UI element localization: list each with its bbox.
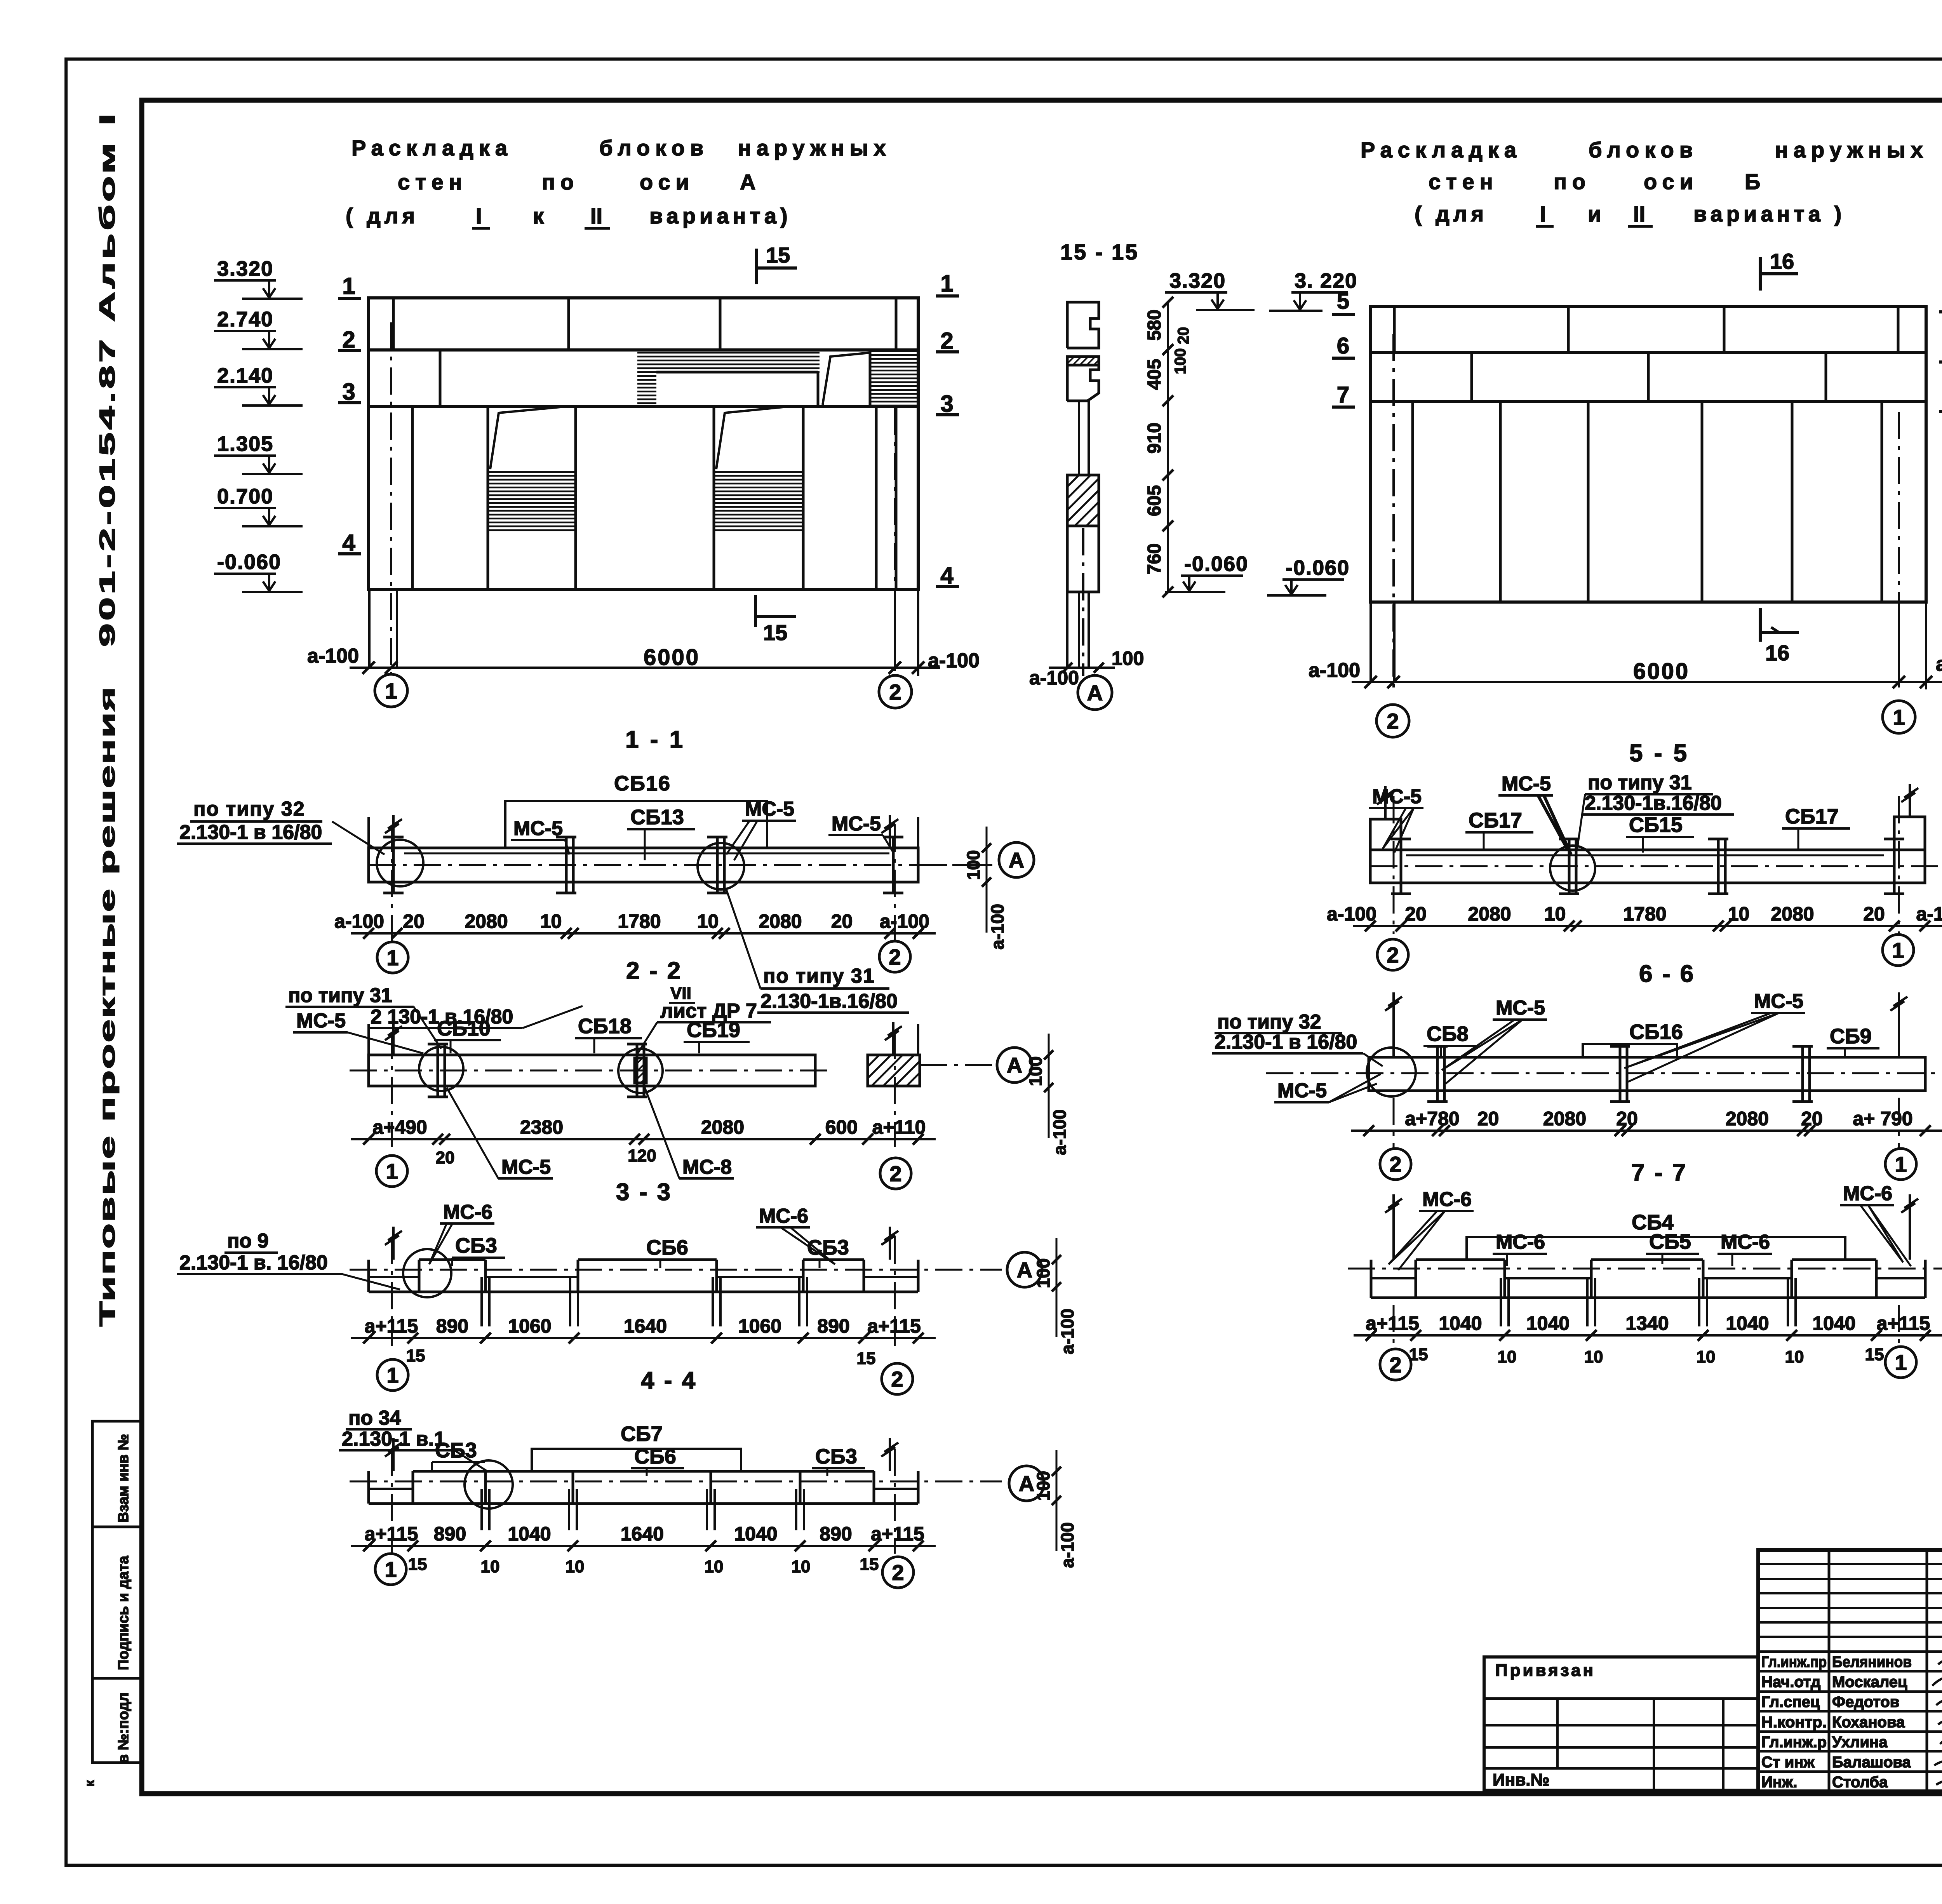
svg-text:2080: 2080 (701, 1116, 744, 1138)
svg-text:890: 890 (817, 1315, 849, 1337)
strip8 centerline (1348, 1268, 1942, 1270)
svg-text:2.130-1 в.1: 2.130-1 в.1 (342, 1428, 445, 1450)
svg-text:1040: 1040 (508, 1523, 551, 1545)
svg-text:2 - 2: 2 - 2 (626, 957, 682, 984)
svg-text:10: 10 (1785, 1347, 1804, 1366)
3-3 right 100 dims (1048, 1034, 1050, 1138)
svg-text:Ст инж: Ст инж (1761, 1754, 1815, 1771)
svg-text:-0.060: -0.060 (1184, 552, 1248, 576)
svg-text:20: 20 (403, 910, 425, 932)
svg-text:10: 10 (792, 1557, 811, 1576)
2-2 joint at axis 1 (392, 837, 395, 893)
svg-text:Столба: Столба (1832, 1774, 1888, 1791)
strip8 end breaks (1392, 1194, 1395, 1227)
svg-text:3 - 3: 3 - 3 (616, 1179, 672, 1206)
svg-text:2080: 2080 (1543, 1108, 1586, 1130)
svg-text:МС-5: МС-5 (1277, 1079, 1327, 1102)
svg-text:а+115: а+115 (871, 1523, 924, 1545)
svg-text:СБ3: СБ3 (815, 1445, 857, 1468)
svg-text:5: 5 (1337, 289, 1349, 314)
6-6 right end block (1894, 817, 1925, 883)
svg-text:1040: 1040 (1439, 1312, 1482, 1334)
svg-text:СБ15: СБ15 (1629, 813, 1683, 837)
15-15 below-grade stem (1078, 592, 1080, 668)
svg-text:МС-6: МС-6 (443, 1201, 492, 1224)
strip8 grid circle 2 (1380, 1349, 1411, 1380)
7-7 grid circle 2 (1380, 1149, 1411, 1180)
svg-text:( для: ( для (1415, 202, 1488, 226)
svg-text:6000: 6000 (644, 645, 700, 670)
6-6 joints (1400, 839, 1403, 894)
3-3 joint circle 2 (618, 1049, 663, 1093)
svg-text:0.700: 0.700 (217, 485, 273, 508)
svg-text:СБ5: СБ5 (1649, 1230, 1691, 1253)
svg-text:1 - 1: 1 - 1 (625, 726, 685, 753)
svg-text:20: 20 (1616, 1108, 1638, 1130)
svg-text:по 34: по 34 (348, 1407, 401, 1429)
1-1 row2 joint (439, 350, 442, 406)
svg-text:наружных: наружных (1775, 137, 1928, 162)
svg-text:варианта ): варианта ) (1693, 202, 1845, 226)
svg-text:а-100: а-100 (880, 910, 929, 932)
svg-text:20: 20 (1863, 903, 1885, 925)
svg-text:890: 890 (434, 1523, 466, 1545)
15-15 second block (1067, 357, 1099, 401)
svg-text:А: А (1017, 1258, 1032, 1282)
svg-text:СБ17: СБ17 (1469, 809, 1522, 832)
svg-text:2080: 2080 (1771, 903, 1814, 925)
2-2 axis A circle (918, 864, 994, 866)
svg-text:СБ9: СБ9 (1830, 1025, 1872, 1048)
plan section 4-4 strip (369, 1291, 918, 1293)
svg-text:1040: 1040 (734, 1523, 777, 1545)
svg-text:10: 10 (697, 910, 719, 932)
1-1 left window sash diagonal (490, 406, 569, 469)
svg-text:10: 10 (705, 1557, 724, 1576)
svg-text:МС-5: МС-5 (1754, 990, 1803, 1013)
5-5 grid circle 1 (1883, 701, 1915, 733)
svg-text:СБ13: СБ13 (630, 806, 684, 829)
svg-text:580: 580 (1144, 310, 1165, 341)
svg-text:МС-5: МС-5 (1372, 785, 1422, 808)
svg-text:15: 15 (763, 620, 787, 645)
svg-text:7: 7 (1337, 382, 1349, 407)
svg-text:2.130-1в.16/80: 2.130-1в.16/80 (760, 990, 898, 1013)
svg-text:а+490: а+490 (372, 1116, 427, 1138)
6-6 dimension row (1353, 925, 1942, 927)
svg-text:наружных: наружных (738, 136, 891, 160)
svg-text:1: 1 (940, 270, 953, 296)
3-3 grid circle 2 (880, 1158, 911, 1189)
svg-text:по типу 31: по типу 31 (288, 984, 392, 1007)
svg-text:4: 4 (940, 562, 954, 588)
svg-text:2: 2 (1389, 1152, 1401, 1177)
svg-text:А: А (1007, 1053, 1022, 1077)
svg-text:16: 16 (1765, 640, 1789, 665)
svg-text:СБ6: СБ6 (634, 1445, 676, 1468)
svg-text:2: 2 (891, 1367, 903, 1391)
svg-text:а+115: а+115 (867, 1315, 921, 1337)
plan section 3-3 wall (369, 1055, 815, 1086)
svg-text:а-100: а-100 (334, 910, 384, 932)
svg-text:10: 10 (481, 1557, 500, 1576)
15-15 grid circle A (1078, 675, 1112, 710)
svg-text:Н.контр.: Н.контр. (1761, 1714, 1827, 1731)
1-1 cut mark 15 top (755, 249, 758, 284)
svg-text:МС-6: МС-6 (1721, 1231, 1770, 1253)
svg-text:6000: 6000 (1633, 659, 1690, 684)
svg-text:6: 6 (1337, 333, 1349, 359)
svg-text:МС-5: МС-5 (1496, 997, 1545, 1019)
svg-text:а+115: а+115 (365, 1315, 418, 1337)
7-7 dimension row (1351, 1130, 1942, 1132)
svg-text:СБ18: СБ18 (578, 1015, 632, 1038)
svg-text:Коханова: Коханова (1832, 1714, 1905, 1731)
3-3 end break (392, 1022, 395, 1055)
svg-text:СБ3: СБ3 (455, 1234, 497, 1257)
svg-text:3.320: 3.320 (1169, 269, 1226, 292)
6-6 left end block (1370, 819, 1401, 883)
svg-text:100: 100 (1172, 348, 1189, 374)
svg-text:а-100: а-100 (1327, 903, 1376, 925)
svg-text:100: 100 (963, 850, 983, 880)
svg-text:405: 405 (1144, 359, 1165, 390)
svg-text:2: 2 (1387, 943, 1399, 967)
svg-text:МС-5: МС-5 (501, 1156, 551, 1178)
svg-text:по типу 32: по типу 32 (193, 798, 305, 820)
svg-text:по типу 31: по типу 31 (1588, 771, 1692, 794)
svg-text:СБ19: СБ19 (687, 1018, 740, 1042)
svg-text:910: 910 (1144, 423, 1165, 454)
svg-text:а-100: а-100 (987, 904, 1008, 950)
svg-text:к: к (533, 204, 544, 228)
svg-text:4: 4 (342, 530, 355, 556)
svg-text:20: 20 (436, 1148, 455, 1167)
6-6 centerline (1370, 865, 1942, 867)
svg-text:стен: стен (1429, 169, 1498, 194)
svg-text:3.320: 3.320 (217, 257, 273, 280)
svg-text:1: 1 (386, 1159, 398, 1183)
svg-text:МС-6: МС-6 (1843, 1182, 1892, 1205)
title block outer (1758, 1550, 1942, 1791)
svg-text:по типу 32: по типу 32 (1217, 1011, 1321, 1033)
svg-text:15: 15 (860, 1555, 879, 1574)
svg-text:100: 100 (1025, 1056, 1046, 1086)
svg-text:20: 20 (831, 910, 853, 932)
svg-text:10: 10 (1544, 903, 1566, 925)
svg-text:Ухлина: Ухлина (1832, 1733, 1888, 1751)
svg-text:2080: 2080 (1726, 1108, 1769, 1130)
5-5 axis 1 dash-dot (1898, 412, 1900, 687)
svg-text:а-100: а-100 (1309, 659, 1360, 682)
svg-text:СБ10: СБ10 (437, 1017, 491, 1040)
5-5 lower joints (1411, 402, 1414, 602)
svg-text:а-100: а-100 (1057, 1522, 1077, 1568)
svg-text:а-100: а-100 (928, 649, 980, 672)
svg-text:оси: оси (640, 170, 694, 194)
strip4b end breaks (392, 1438, 395, 1471)
svg-text:6 - 6: 6 - 6 (1639, 961, 1695, 987)
15-15 bottom dims (1049, 667, 1115, 669)
svg-text:Раскладка: Раскладка (352, 136, 513, 160)
1-1 grid circle 2 (879, 675, 912, 708)
7-7 centerline (1266, 1072, 1942, 1074)
svg-text:2.130-1 в. 16/80: 2.130-1 в. 16/80 (179, 1251, 328, 1274)
strip8 axis stems (1393, 1305, 1395, 1350)
elevation 1-1 wall outline (369, 298, 918, 590)
2-2 joint circle mid (698, 843, 744, 889)
svg-text:СБ17: СБ17 (1785, 805, 1839, 828)
1-1 axis 2 dash-dot (894, 408, 896, 674)
svg-text:20: 20 (1405, 903, 1427, 925)
svg-text:Москалец: Москалец (1832, 1674, 1907, 1691)
svg-text:СБ3: СБ3 (435, 1439, 477, 1462)
svg-text:Типовые проектные решения: Типовые проектные решения (95, 686, 119, 1326)
svg-text:-0.060: -0.060 (217, 550, 281, 574)
svg-text:2: 2 (1389, 1352, 1401, 1377)
1-1 right window sill hatch (714, 472, 803, 530)
svg-text:20: 20 (1175, 327, 1192, 345)
svg-text:А: А (1019, 1471, 1034, 1496)
1-1 axis 1 dash-dot (390, 322, 392, 674)
5-5 cut mark 16 top (1759, 257, 1762, 291)
svg-text:1060: 1060 (738, 1315, 781, 1337)
svg-text:МС-8: МС-8 (682, 1156, 732, 1178)
strip4b grid circle 2 (882, 1557, 914, 1588)
svg-text:I: I (1540, 202, 1546, 226)
svg-text:Инв.№: Инв.№ (1493, 1770, 1550, 1789)
svg-text:блоков: блоков (599, 136, 709, 160)
strip4b dimension row (351, 1545, 936, 1547)
2-2 joint right (892, 837, 895, 893)
15-15 diagonal hatched block (1067, 475, 1099, 526)
svg-text:Гл.инж.пр: Гл.инж.пр (1761, 1653, 1827, 1671)
svg-text:1: 1 (1892, 938, 1904, 962)
2-2 joint 1856 (716, 837, 719, 893)
6-6 grid circle 2 (1377, 939, 1408, 970)
2-2 grid circle 1 (377, 942, 408, 973)
svg-text:Подпись и дата: Подпись и дата (115, 1556, 132, 1670)
5-5 axis 2 dash-dot (1392, 334, 1395, 687)
svg-text:МС-5: МС-5 (745, 798, 794, 820)
plan section 7-7 wall (1369, 1057, 1925, 1091)
svg-text:а+ 790: а+ 790 (1853, 1108, 1912, 1130)
2-2 joint circle left (377, 840, 423, 886)
svg-text:1: 1 (385, 679, 397, 703)
svg-text:по 9: по 9 (227, 1230, 269, 1252)
svg-text:100: 100 (1033, 1258, 1053, 1288)
svg-text:10: 10 (540, 910, 562, 932)
svg-text:по типу 31: по типу 31 (763, 965, 875, 987)
signature squiggles (1938, 1659, 1942, 1665)
svg-text:по: по (542, 170, 579, 194)
1-1 columns below wall (368, 590, 371, 668)
svg-text:2: 2 (889, 1161, 901, 1186)
strip4b axis A circle (1009, 1466, 1044, 1501)
strip8 dimension row (1354, 1334, 1942, 1337)
6-6 joint circle (1550, 846, 1595, 891)
1-1 row1 joints (392, 298, 395, 350)
svg-text:2080: 2080 (759, 910, 802, 932)
svg-text:а-100: а-100 (1936, 653, 1942, 675)
svg-text:10: 10 (1584, 1347, 1603, 1366)
svg-text:1780: 1780 (1623, 903, 1666, 925)
strip4b right 100 dims (1056, 1450, 1058, 1551)
3-3 end centerline to A (920, 1064, 994, 1066)
5-5 dimension line 6000 (1352, 681, 1942, 683)
15-15 top block (1067, 302, 1099, 348)
title block: signature rows (1758, 1670, 1942, 1673)
svg-text:890: 890 (820, 1523, 852, 1545)
title block: thin header rows (1758, 1563, 1942, 1565)
5-5 grid circle 2 (1376, 705, 1409, 737)
3-3 centerline (350, 1070, 827, 1072)
svg-text:760: 760 (1144, 543, 1165, 574)
svg-text:2: 2 (1387, 709, 1399, 733)
svg-text:1: 1 (1895, 1350, 1907, 1375)
svg-text:15: 15 (857, 1349, 876, 1368)
svg-text:МС-5: МС-5 (832, 813, 881, 835)
svg-text:А: А (740, 170, 761, 194)
svg-text:120: 120 (628, 1146, 656, 1165)
svg-text:СБ6: СБ6 (646, 1236, 688, 1259)
svg-text:1640: 1640 (621, 1523, 664, 1545)
svg-text:1: 1 (386, 945, 398, 970)
svg-text:МС-6: МС-6 (1496, 1231, 1545, 1253)
4-4 grid circle 1 (377, 1359, 408, 1391)
6-6 grid circle 1 (1883, 935, 1914, 966)
4-4 right 100 dims (1056, 1238, 1058, 1337)
4-4 grid circle 2 (882, 1363, 913, 1394)
plan bottom strip (по 34) (369, 1502, 918, 1505)
svg-text:МС-5: МС-5 (296, 1009, 346, 1032)
svg-text:II: II (1633, 202, 1645, 226)
svg-text:15: 15 (1865, 1345, 1884, 1364)
svg-text:Привязан: Привязан (1495, 1661, 1596, 1680)
svg-text:к: к (82, 1780, 97, 1787)
svg-text:10: 10 (1697, 1347, 1716, 1366)
3-3 joint b (636, 1044, 639, 1097)
svg-text:а+780: а+780 (1405, 1108, 1459, 1130)
15-15 lower block (1067, 526, 1099, 592)
svg-text:2380: 2380 (520, 1116, 563, 1138)
svg-text:а+115: а+115 (365, 1523, 418, 1545)
svg-text:1060: 1060 (508, 1315, 551, 1337)
svg-text:16: 16 (1770, 249, 1794, 273)
svg-text:А: А (1087, 680, 1103, 705)
5-5 columns below wall (1369, 602, 1372, 682)
4-4 end breaks (392, 1227, 395, 1260)
strip8 grid circle 1 (1885, 1347, 1916, 1378)
svg-text:а+110: а+110 (872, 1116, 926, 1138)
svg-text:2: 2 (342, 327, 355, 353)
svg-text:варианта): варианта) (649, 204, 792, 228)
7-7 grid circle 1 (1885, 1149, 1916, 1180)
svg-text:1640: 1640 (624, 1315, 667, 1337)
1-1 right window sash diagonal (716, 406, 791, 469)
15-15 vertical dim chain (1167, 302, 1169, 592)
svg-text:605: 605 (1144, 485, 1165, 516)
svg-text:оси: оси (1644, 169, 1698, 194)
svg-text:1040: 1040 (1726, 1312, 1769, 1334)
svg-text:15: 15 (766, 243, 790, 267)
svg-text:Гл.спец: Гл.спец (1761, 1693, 1820, 1711)
7-7 joint circle at axis 2 (1367, 1048, 1416, 1096)
svg-text:10: 10 (1498, 1347, 1517, 1366)
strip4b grid circle 1 (375, 1554, 406, 1585)
plan section 6-6 wall (1370, 850, 1925, 883)
svg-text:2: 2 (892, 1560, 904, 1585)
svg-text:Гл.инж.р: Гл.инж.р (1761, 1733, 1827, 1751)
1-1 dimension line 6000 (350, 667, 940, 669)
svg-text:2.130-1 в 16/80: 2.130-1 в 16/80 (1215, 1031, 1357, 1053)
svg-text:блоков: блоков (1589, 137, 1698, 162)
svg-text:МС-6: МС-6 (1422, 1188, 1472, 1211)
svg-text:стен: стен (398, 170, 468, 194)
left attachment table Привязан (1484, 1657, 1758, 1790)
svg-text:по: по (1554, 169, 1591, 194)
svg-text:5 - 5: 5 - 5 (1629, 740, 1689, 767)
svg-text:СБ16: СБ16 (1629, 1020, 1683, 1044)
svg-text:Инж.: Инж. (1761, 1774, 1797, 1791)
svg-text:-0.060: -0.060 (1286, 556, 1350, 580)
svg-text:100: 100 (1033, 1471, 1053, 1501)
svg-text:15: 15 (406, 1346, 425, 1365)
svg-text:2.130-1в.16/80: 2.130-1в.16/80 (1585, 792, 1722, 815)
2-2 centerline (369, 864, 999, 866)
svg-text:890: 890 (436, 1315, 468, 1337)
svg-text:а-100: а-100 (1057, 1309, 1077, 1354)
svg-text:в №:подл: в №:подл (115, 1692, 132, 1763)
6-6 axis stems (1393, 796, 1395, 934)
5-5 row6 joints (1470, 352, 1473, 402)
svg-text:2: 2 (889, 945, 901, 969)
svg-text:1340: 1340 (1625, 1312, 1669, 1334)
1-1 row2 right hatch block (870, 351, 918, 406)
1-1 left window sill hatch (488, 472, 576, 530)
7-7 joints (1436, 1046, 1439, 1102)
svg-text:2: 2 (940, 328, 953, 354)
svg-text:2.140: 2.140 (217, 364, 273, 387)
svg-text:1: 1 (1895, 1152, 1907, 1177)
3-3 dimension row (351, 1138, 936, 1140)
1-1 grid circle 1 (375, 674, 407, 707)
svg-text:1: 1 (1893, 705, 1905, 729)
svg-text:Белянинов: Белянинов (1832, 1653, 1912, 1671)
plan right bottom strip (1371, 1297, 1925, 1299)
2-2 dimension row (351, 932, 936, 935)
svg-text:МС-5: МС-5 (1502, 773, 1551, 795)
svg-text:1040: 1040 (1812, 1312, 1855, 1334)
strip4b axis stems (391, 1449, 393, 1554)
svg-text:а-100: а-100 (1049, 1109, 1070, 1155)
svg-text:Б: Б (1745, 169, 1766, 194)
15-15 stem (1078, 401, 1080, 475)
svg-text:МС-5: МС-5 (513, 817, 563, 840)
svg-text:3: 3 (342, 379, 355, 405)
svg-text:2.130-1 в 16/80: 2.130-1 в 16/80 (179, 821, 322, 844)
3-3 axis stems (391, 1032, 393, 1147)
svg-text:2080: 2080 (1468, 903, 1511, 925)
svg-text:и: и (1588, 202, 1601, 226)
svg-text:1: 1 (386, 1363, 398, 1387)
svg-text:7 - 7: 7 - 7 (1631, 1159, 1687, 1186)
svg-text:1780: 1780 (618, 910, 661, 932)
svg-text:1: 1 (385, 1557, 397, 1582)
svg-text:2.740: 2.740 (217, 308, 273, 331)
svg-text:2: 2 (889, 680, 901, 704)
left stamp boxes (Взам.инв №/Подпись и дата/Инв № подл) (92, 1421, 142, 1763)
